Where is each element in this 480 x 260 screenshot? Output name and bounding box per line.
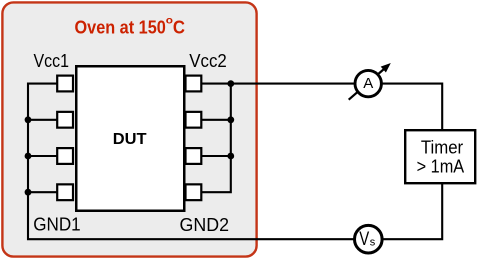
wire: timer bottom to Vs [382,184,442,240]
svg-text:s: s [370,236,376,248]
svg-text:> 1mA: > 1mA [417,157,465,177]
pin L1 [57,76,73,92]
junction dot right pin3 [227,153,234,160]
junction dot left pin4 [25,189,32,196]
svg-text:Vcc2: Vcc2 [189,51,227,71]
svg-text:DUT: DUT [113,131,147,148]
pin L3 [57,148,73,164]
svg-text:Oven at 150: Oven at 150 [75,18,166,38]
pin R3 [186,148,202,164]
wire: right pin3 [202,155,231,157]
svg-text:V: V [359,229,369,250]
junction dot left pin2 [25,116,32,123]
wire: left pin4 [27,191,58,193]
junction dot right pin2 [227,116,234,123]
pin R1 [186,76,202,92]
pin L2 [57,112,73,128]
junction dot left pin3 [25,153,32,160]
wire: right pin2 [202,119,231,121]
wire: left pin3 [27,155,58,157]
svg-text:C: C [173,18,185,38]
oven enclosure [2,2,256,256]
wire: right bus vertical with pin4 corner [202,84,231,193]
svg-text:GND1: GND1 [33,215,80,235]
svg-text:A: A [363,75,373,92]
junction dot right pin1 [227,80,234,87]
wire: left bus (pin1 wire, left vertical, bottom wire to Vs) [28,84,355,240]
wire: ammeter to timer top [381,84,442,131]
ammeter A1 arrowhead [381,63,391,73]
pin R2 [186,112,202,128]
source Vs body [355,225,383,253]
pin R4 [186,184,202,200]
svg-text:GND2: GND2 [180,215,230,235]
wire: right pin1 to ammeter [202,83,355,85]
timer box [405,130,475,183]
wire: left pin2 [27,119,58,121]
DUT body [76,66,184,211]
svg-text:Timer: Timer [421,138,463,158]
ammeter A1 arrow tail [349,68,385,99]
ammeter A1 body [355,70,381,96]
svg-text:Vcc1: Vcc1 [34,51,70,71]
pin L4 [57,184,73,200]
